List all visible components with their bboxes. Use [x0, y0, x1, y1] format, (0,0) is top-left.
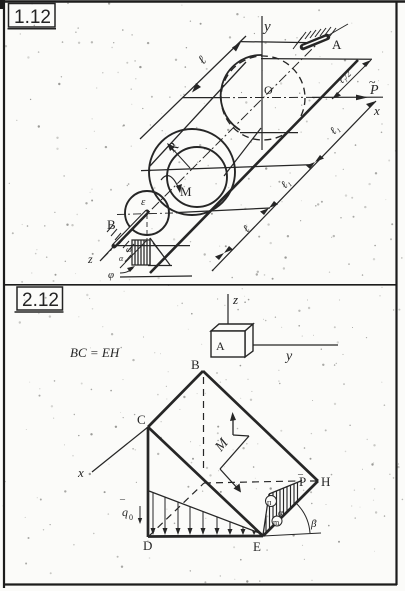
- svg-text:β: β: [310, 518, 317, 530]
- svg-text:¯: ¯: [119, 499, 126, 510]
- svg-text:z: z: [232, 292, 238, 307]
- svg-text:E: E: [253, 539, 261, 554]
- svg-text:C: C: [137, 412, 146, 427]
- svg-text:ω: ω: [126, 245, 132, 254]
- svg-text:A: A: [216, 339, 225, 353]
- svg-text:ε: ε: [141, 196, 146, 208]
- svg-text:BC = EH: BC = EH: [70, 345, 120, 360]
- svg-text:~: ~: [369, 75, 376, 89]
- svg-text:x: x: [77, 465, 84, 480]
- svg-text:O: O: [264, 83, 273, 97]
- svg-text:1.12: 1.12: [14, 7, 51, 28]
- svg-text:y: y: [284, 349, 293, 364]
- svg-text:H: H: [321, 474, 330, 489]
- svg-text:B: B: [107, 217, 116, 232]
- svg-text:2.12: 2.12: [22, 290, 59, 311]
- svg-text:D: D: [143, 538, 152, 553]
- svg-text:M: M: [180, 184, 192, 199]
- svg-text:B: B: [191, 357, 200, 372]
- svg-text:α: α: [278, 508, 284, 519]
- svg-text:–: –: [297, 469, 304, 480]
- svg-text:φ: φ: [108, 269, 114, 281]
- svg-text:A: A: [332, 37, 342, 52]
- svg-text:x: x: [373, 103, 380, 118]
- svg-text:п: п: [267, 498, 272, 507]
- svg-text:y: y: [262, 19, 271, 35]
- svg-text:z: z: [87, 252, 93, 266]
- svg-text:0: 0: [129, 513, 133, 522]
- svg-text:m: m: [273, 518, 280, 527]
